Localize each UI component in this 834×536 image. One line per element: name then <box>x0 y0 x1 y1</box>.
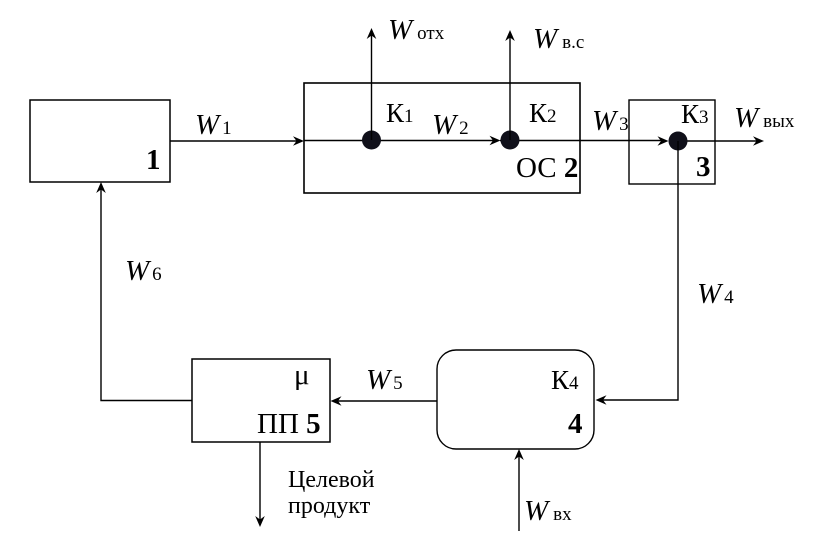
wire W out <box>678 140 760 142</box>
wire W otkh up from K1 <box>371 32 373 140</box>
wire W in up into block 4 <box>518 453 520 531</box>
svg-text:продукт: продукт <box>288 493 371 519</box>
wire W6 from block 5 to block 1 <box>101 186 192 401</box>
wire target product down from block 5 <box>259 442 261 523</box>
wire W v.s up from K2 <box>509 34 511 140</box>
svg-text:3: 3 <box>696 151 711 183</box>
node K1 <box>362 131 381 150</box>
svg-text:ПП 5: ПП 5 <box>257 408 321 440</box>
node K2 <box>501 131 520 150</box>
block 4 <box>437 350 594 449</box>
svg-text:ОС 2: ОС 2 <box>516 152 578 184</box>
block 1 <box>30 100 170 182</box>
block PP 5 <box>192 359 330 442</box>
block 3 <box>629 100 715 184</box>
svg-text:Целевой: Целевой <box>288 467 375 493</box>
node K3 <box>669 132 688 151</box>
block OC 2 <box>304 83 580 193</box>
svg-text:μ: μ <box>294 359 310 391</box>
wire K1 to K2 <box>304 140 497 142</box>
svg-text:4: 4 <box>568 408 583 440</box>
wire W4 down from K3 to block 4 <box>599 141 678 400</box>
wire K2 to K3 <box>500 140 665 142</box>
wire W5 from block 4 to block 5 <box>334 400 437 402</box>
wire W1 <box>170 140 300 142</box>
svg-text:1: 1 <box>146 144 161 176</box>
